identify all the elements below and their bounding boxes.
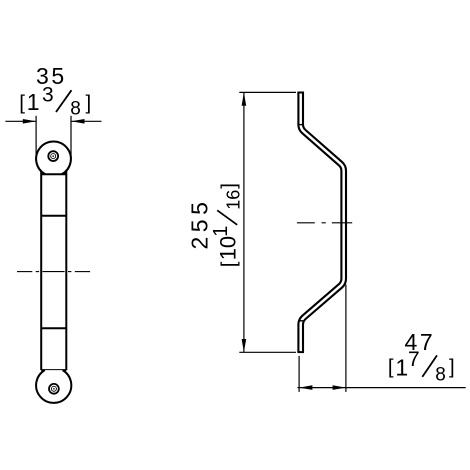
front view: top mounting circle bbox=[36, 142, 71, 175]
dimension text [10 1/16] (rotated) bbox=[210, 183, 244, 267]
svg-text:]: ] bbox=[449, 355, 455, 378]
svg-text:10: 10 bbox=[216, 236, 241, 260]
side view: lower bend tick bbox=[298, 320, 303, 322]
extension line left of 35 bbox=[35, 116, 37, 158]
dimension text [1 7/8] bbox=[388, 348, 455, 386]
svg-text:8: 8 bbox=[435, 365, 446, 386]
dimension 255: top arrowhead (pointing up) bbox=[242, 92, 247, 105]
svg-text:16: 16 bbox=[224, 190, 244, 210]
side view: centerline (dash-dot) bbox=[297, 222, 352, 224]
front view: chord line at bottom circle / bar joint bbox=[41, 369, 66, 371]
dimension 47: left extension line bbox=[298, 356, 300, 392]
dimension 255: bottom extension line bbox=[239, 351, 296, 353]
front view: centerline (dash-dot) bbox=[17, 271, 90, 273]
side view: bottom end cap bbox=[297, 351, 304, 353]
svg-text:[: [ bbox=[217, 261, 240, 267]
svg-text:[: [ bbox=[19, 91, 25, 114]
front view: bar right edge bbox=[65, 171, 67, 370]
svg-text:7: 7 bbox=[408, 348, 420, 371]
side view: bent profile outline (black under-stroke) bbox=[301, 92, 344, 352]
svg-text:1: 1 bbox=[395, 355, 408, 381]
dimension line for 35 (left segment) bbox=[5, 120, 36, 122]
front view: bar left edge bbox=[40, 171, 42, 370]
dimension line for 35 (right segment) bbox=[71, 120, 101, 122]
svg-text:255: 255 bbox=[186, 198, 212, 250]
dimension 255: vertical dimension line bbox=[243, 92, 245, 352]
svg-text:1: 1 bbox=[210, 226, 232, 237]
arrowhead right (pointing left) bbox=[71, 119, 84, 124]
svg-text:1: 1 bbox=[27, 89, 40, 115]
svg-text:[: [ bbox=[388, 355, 394, 378]
svg-text:]: ] bbox=[217, 183, 240, 189]
front view: lower bend division line bbox=[41, 327, 66, 329]
arrowhead left (pointing right) bbox=[23, 119, 36, 124]
front view: upper bend division line bbox=[41, 215, 66, 217]
extension line right of 35 bbox=[70, 116, 72, 158]
front view: bottom screw inner ring bbox=[51, 386, 56, 391]
dimension text [1 3/8] bbox=[19, 84, 91, 120]
svg-text:8: 8 bbox=[70, 99, 81, 120]
side view: top end cap bbox=[297, 92, 304, 94]
svg-text:3: 3 bbox=[42, 84, 54, 107]
dimension 47: horizontal dimension line bbox=[298, 387, 466, 389]
dimension 255: bottom arrowhead (pointing down) bbox=[242, 339, 247, 352]
front view: bottom screw center dot bbox=[53, 388, 55, 390]
front view: bottom mounting circle bbox=[36, 370, 71, 403]
dimension 47: right arrowhead (pointing right) bbox=[333, 385, 346, 390]
side view: bent profile interior (white inner stroke) bbox=[301, 92, 344, 352]
front view: top screw center dot bbox=[52, 155, 54, 157]
dimension 47: right extension line bbox=[345, 285, 347, 392]
front view: top screw inner ring bbox=[51, 154, 56, 159]
dimension 255: top extension line bbox=[239, 91, 296, 93]
front view: bottom screw outer ring bbox=[49, 384, 59, 394]
side view: upper bend tick bbox=[298, 124, 303, 126]
front view: chord line at top circle / bar joint bbox=[41, 173, 66, 175]
svg-text:]: ] bbox=[86, 91, 92, 114]
dimension 47: left arrowhead (pointing left) bbox=[299, 385, 312, 390]
front view: top screw outer ring bbox=[48, 151, 58, 161]
